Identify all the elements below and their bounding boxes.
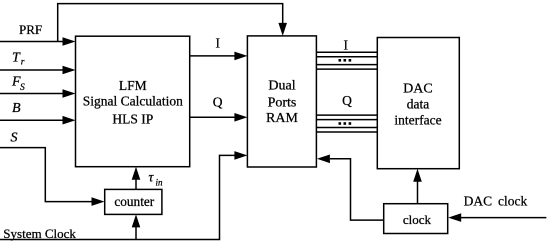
svg-text:DAC: DAC <box>403 81 433 96</box>
svg-text:S: S <box>20 83 25 93</box>
svg-text:Dual: Dual <box>268 78 295 93</box>
arrowhead B into LFM <box>63 116 76 125</box>
svg-text:interface: interface <box>394 113 441 128</box>
svg-text:PRF: PRF <box>19 22 42 37</box>
bus Q dots <box>339 122 342 125</box>
block U4 counter <box>105 189 162 214</box>
wire S input to counter <box>0 148 93 202</box>
svg-text:data: data <box>407 97 430 112</box>
wire B input <box>0 119 64 121</box>
wire Fs input <box>0 93 64 95</box>
svg-text:clock: clock <box>403 212 432 227</box>
wire PRF input <box>0 41 64 43</box>
block U5 clock <box>384 204 448 234</box>
arrowhead Q into RAM <box>234 113 247 122</box>
arrowhead System Clock into RAM <box>234 151 247 160</box>
svg-text:Q: Q <box>213 95 223 110</box>
arrowhead counter into LFM <box>132 167 141 180</box>
wire DAC clock input <box>461 217 547 219</box>
wire clock to DAC <box>417 181 419 204</box>
block U3 DAC data interface <box>377 38 459 169</box>
svg-text:RAM: RAM <box>266 111 298 126</box>
wire Q LFM to RAM <box>190 116 236 118</box>
wire counter to LFM <box>135 179 137 190</box>
arrowhead Fs into LFM <box>63 89 76 98</box>
svg-text:I: I <box>216 35 221 50</box>
bus I dots <box>339 59 342 62</box>
wire System Clock <box>0 155 235 239</box>
svg-text:LFM: LFM <box>119 78 147 93</box>
svg-text:DAC: DAC <box>464 193 493 208</box>
svg-text:HLS IP: HLS IP <box>112 112 153 127</box>
arrowhead clock into RAM right <box>317 155 330 164</box>
bus I RAM to DAC <box>316 51 377 53</box>
arrowhead System Clock into counter <box>132 214 141 227</box>
svg-text:Signal Calculation: Signal Calculation <box>83 93 183 108</box>
wire PRF to RAM top net <box>58 4 283 42</box>
svg-text:T: T <box>12 51 21 66</box>
arrowhead S into counter <box>92 197 105 206</box>
svg-text:Q: Q <box>342 93 352 108</box>
svg-text:in: in <box>156 178 164 188</box>
svg-text:S: S <box>11 130 18 145</box>
arrowhead clock into DAC <box>413 169 422 182</box>
bus Q RAM to DAC <box>316 114 377 116</box>
svg-text:B: B <box>12 101 21 116</box>
block U1 LFM Signal Calculation HLS IP <box>76 36 190 167</box>
svg-text:counter: counter <box>114 194 154 209</box>
wire Tr input <box>0 69 64 71</box>
svg-text:System Clock: System Clock <box>3 226 76 241</box>
svg-text:Ports: Ports <box>268 95 297 110</box>
svg-text:r: r <box>21 58 25 68</box>
arrowhead PRF into LFM <box>63 37 76 46</box>
arrowhead I into RAM <box>234 52 247 61</box>
wire System Clock to counter <box>135 226 137 239</box>
arrowhead net into RAM top <box>278 23 287 36</box>
block U2 Dual Ports RAM <box>247 36 316 167</box>
svg-text:I: I <box>344 38 349 53</box>
arrowhead Tr into LFM <box>63 66 76 75</box>
wire I LFM to RAM <box>190 55 236 57</box>
wire clock to RAM <box>330 159 384 220</box>
svg-text:clock: clock <box>498 193 527 208</box>
arrowhead DAC clock into clock <box>448 213 461 222</box>
